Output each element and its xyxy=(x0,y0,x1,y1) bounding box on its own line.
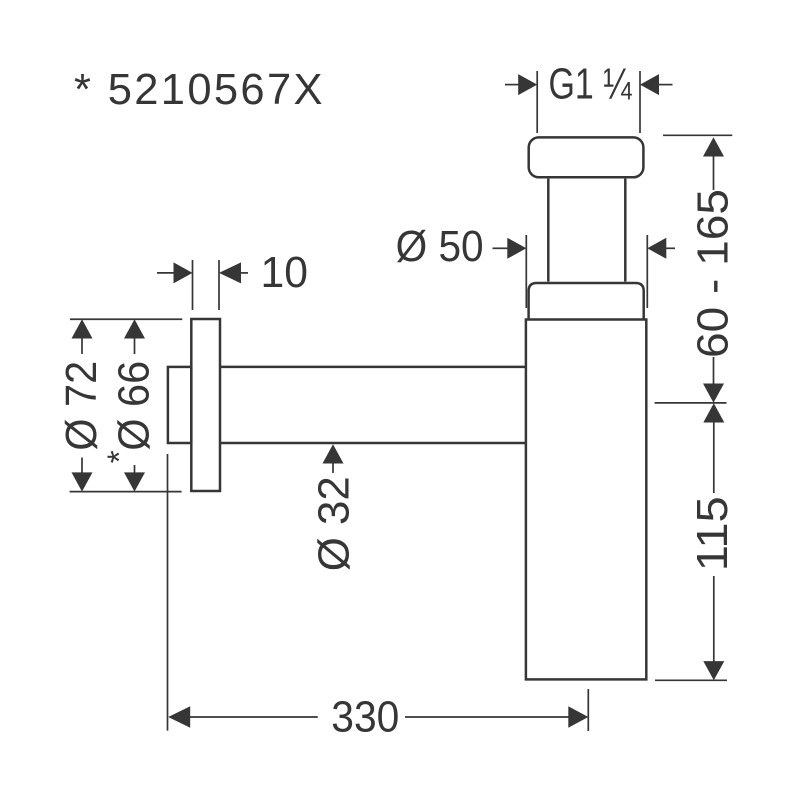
svg-text:Ø 50: Ø 50 xyxy=(396,223,484,271)
svg-text:10: 10 xyxy=(261,249,309,297)
svg-text:*: * xyxy=(101,450,138,463)
svg-text:Ø 72: Ø 72 xyxy=(58,361,106,451)
svg-text:115: 115 xyxy=(689,496,737,571)
svg-text:* 5210567X: * 5210567X xyxy=(74,66,323,114)
svg-text:330: 330 xyxy=(331,694,399,742)
svg-text:Ø 32: Ø 32 xyxy=(310,476,358,571)
svg-text:G1 ¼: G1 ¼ xyxy=(549,61,633,109)
svg-text:60 - 165: 60 - 165 xyxy=(690,189,738,358)
svg-text:Ø 66: Ø 66 xyxy=(110,361,158,451)
